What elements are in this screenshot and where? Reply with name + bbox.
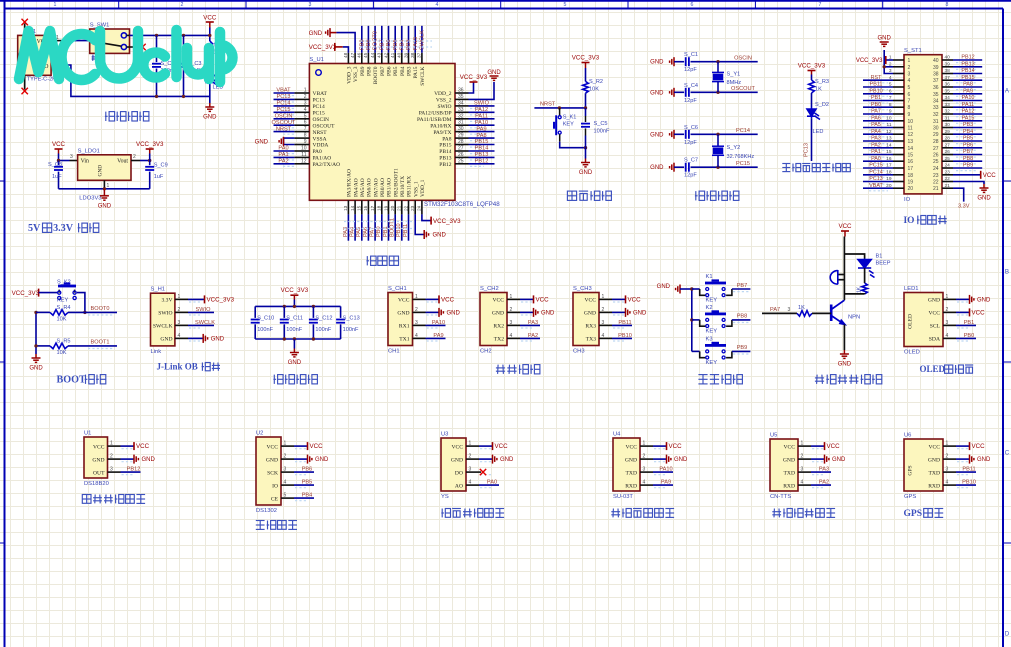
svg-text:S_LDO1: S_LDO1 (78, 148, 100, 154)
junction (584, 146, 587, 149)
svg-text:S_C7: S_C7 (684, 158, 698, 164)
power VCC_3V3 jlink (188, 298, 205, 300)
svg-text:5: 5 (564, 2, 567, 8)
svg-text:28: 28 (945, 136, 951, 142)
svg-text:GND: GND (315, 457, 329, 463)
svg-text:TXD: TXD (929, 470, 941, 476)
svg-text:CE: CE (271, 496, 279, 502)
svg-text:PB1: PB1 (871, 95, 881, 101)
svg-text:26: 26 (945, 149, 951, 155)
ground (479, 458, 493, 460)
svg-text:U5: U5 (770, 433, 777, 439)
svg-text:PC14: PC14 (736, 128, 750, 134)
svg-text:VCC: VCC (310, 443, 324, 450)
junction (103, 187, 106, 190)
svg-text:PB12: PB12 (961, 55, 974, 61)
power VCC (121, 445, 135, 447)
svg-text:SCL: SCL (930, 324, 941, 330)
header S_ST1 IO expansion (904, 55, 942, 194)
ground (956, 298, 970, 300)
svg-text:37: 37 (933, 78, 939, 84)
capacitor S_C10 100nF (254, 306, 256, 318)
svg-text:PA2: PA2 (528, 333, 538, 339)
wire S_C1 to net (691, 61, 758, 63)
svg-text:VCC_3V3: VCC_3V3 (572, 55, 600, 62)
svg-text:PA12/USB/DP: PA12/USB/DP (419, 111, 452, 117)
svg-text:PA11: PA11 (962, 102, 974, 108)
wire emitter to gnd (843, 324, 845, 350)
svg-text:VCC_3V3: VCC_3V3 (12, 290, 40, 297)
svg-text:SWCLK: SWCLK (420, 66, 426, 85)
svg-text:GND: GND (977, 297, 991, 303)
svg-text:VCC_3V3: VCC_3V3 (460, 74, 488, 81)
svg-text:5V: 5V (28, 223, 41, 234)
wire header pin22 to GND (953, 182, 984, 185)
wire R2 to node (585, 93, 587, 108)
LED alarm (858, 259, 875, 278)
ground (290, 349, 299, 357)
junction (34, 311, 37, 314)
svg-text:10K: 10K (589, 87, 599, 93)
svg-text:8: 8 (908, 105, 911, 111)
resistor 1K alarm (864, 268, 866, 283)
power VCC (533, 295, 535, 303)
wire dash marks (344, 41, 432, 229)
svg-text:PB14: PB14 (439, 149, 451, 155)
svg-text:GND: GND (579, 170, 593, 176)
mcu top pin wires (348, 26, 422, 64)
svg-text:PA15: PA15 (962, 116, 975, 122)
title filter circuit (273, 375, 283, 384)
wire T1 top pin (24, 24, 26, 36)
svg-text:BOOT0: BOOT0 (373, 66, 379, 84)
header S_H1 J-Link (151, 293, 175, 346)
ground (424, 230, 428, 239)
svg-text:DS18B20: DS18B20 (84, 481, 109, 487)
svg-text:S_C6: S_C6 (684, 125, 698, 131)
junction (883, 65, 886, 68)
wire T1 GND down to bus (51, 64, 60, 66)
svg-text:PA7: PA7 (871, 109, 881, 115)
junction (716, 166, 719, 169)
svg-text:36: 36 (945, 82, 951, 88)
svg-text:PB0: PB0 (964, 333, 975, 339)
svg-text:D: D (1005, 631, 1010, 638)
svg-text:PB7: PB7 (380, 66, 386, 76)
svg-text:BOOT1: BOOT1 (91, 340, 110, 346)
svg-text:S_CH1: S_CH1 (388, 286, 407, 292)
ground (426, 311, 440, 313)
no-connect X (22, 88, 28, 94)
wire boot left bus (35, 312, 37, 354)
LED S_D2 (807, 107, 820, 120)
svg-text:OLED: OLED (904, 350, 920, 356)
svg-text:S_R4: S_R4 (57, 305, 71, 311)
svg-text:PB9: PB9 (360, 66, 366, 76)
svg-text:S_Y1: S_Y1 (727, 72, 741, 78)
svg-text:KEY: KEY (706, 360, 718, 366)
ground (667, 455, 671, 464)
wire pin (426, 337, 446, 339)
svg-text:GPS: GPS (908, 465, 914, 475)
svg-text:SU-03T: SU-03T (613, 494, 633, 500)
wire filter top rail (255, 305, 340, 307)
ground (670, 163, 674, 172)
svg-text:VCC: VCC (536, 296, 550, 303)
ground (134, 455, 138, 464)
svg-text:100nF: 100nF (286, 327, 302, 333)
svg-text:13: 13 (908, 139, 914, 145)
capacitor S_C7 12pF (686, 163, 689, 172)
svg-text:S_C13: S_C13 (343, 316, 360, 322)
power VCC (811, 445, 825, 447)
svg-text:PB12: PB12 (475, 159, 489, 165)
wire VDD_3 to VCC_3V3 (343, 47, 349, 53)
svg-text:GND: GND (625, 457, 637, 463)
svg-text:PA11/USB/DM: PA11/USB/DM (417, 117, 452, 123)
svg-text:39: 39 (933, 65, 939, 71)
svg-text:6: 6 (691, 2, 694, 8)
ground (653, 458, 667, 460)
svg-text:PA9/TX: PA9/TX (433, 130, 451, 136)
svg-text:5: 5 (908, 85, 911, 91)
junction (182, 34, 185, 37)
wire NRST node (534, 107, 585, 109)
svg-text:S_H1: S_H1 (151, 287, 166, 293)
svg-text:VCC: VCC (52, 141, 66, 148)
power (146, 148, 154, 150)
junction (155, 34, 158, 37)
title main chip (366, 256, 376, 265)
svg-text:RXD: RXD (783, 483, 795, 489)
title voice broadcast module (772, 509, 781, 518)
wire filter to gnd (293, 339, 295, 349)
svg-text:KEY: KEY (563, 122, 574, 128)
svg-text:GND: GND (541, 310, 555, 316)
svg-text:VSSA: VSSA (313, 136, 327, 142)
svg-text:PA11: PA11 (475, 114, 488, 120)
wire T1 bottom pin (24, 75, 26, 89)
svg-text:PC13: PC13 (804, 143, 810, 157)
svg-text:25: 25 (933, 159, 939, 165)
ground (612, 311, 626, 313)
svg-text:PB10: PB10 (962, 480, 976, 486)
svg-text:2: 2 (181, 2, 184, 8)
svg-text:VCC_3V3: VCC_3V3 (856, 58, 883, 64)
title run indicator (782, 164, 790, 172)
svg-text:VCC: VCC (625, 444, 637, 450)
svg-text:12pF: 12pF (684, 98, 697, 104)
title reset circuit (567, 191, 576, 200)
pushbutton K1 KEY (692, 288, 700, 290)
gps module U6 (904, 439, 943, 491)
svg-text:S_CH2: S_CH2 (480, 286, 499, 292)
svg-text:LED1: LED1 (904, 286, 919, 292)
wire C5 to GND (585, 148, 587, 159)
svg-text:GND: GND (650, 132, 664, 138)
power (582, 62, 590, 64)
ground (100, 189, 109, 200)
svg-text:IO: IO (272, 483, 278, 489)
svg-text:PA2: PA2 (819, 480, 829, 486)
svg-text:PB10/TX: PB10/TX (400, 176, 406, 197)
svg-text:31: 31 (945, 116, 951, 122)
junction (584, 106, 587, 109)
svg-text:VCC: VCC (203, 15, 217, 22)
title crystal circuit (695, 191, 705, 200)
svg-text:S_R2: S_R2 (589, 79, 603, 85)
svg-text:DS1302: DS1302 (256, 508, 277, 514)
junction (148, 159, 151, 162)
junction (312, 305, 315, 308)
power VCC (666, 442, 668, 450)
title serial circuit (496, 365, 505, 374)
wire pin (612, 337, 632, 339)
svg-text:3.3V: 3.3V (161, 298, 172, 304)
serial header S_CH3 (573, 293, 599, 346)
svg-text:PC14: PC14 (313, 104, 325, 110)
svg-text:KEY: KEY (57, 298, 68, 304)
svg-text:PB0/AO: PB0/AO (380, 178, 386, 197)
ground (956, 458, 970, 460)
svg-text:B: B (1005, 269, 1009, 276)
wire pin (294, 471, 314, 473)
svg-text:GND: GND (266, 457, 278, 463)
wire pin (294, 484, 314, 486)
svg-text:PC14: PC14 (869, 169, 883, 175)
svg-text:GND: GND (674, 457, 688, 463)
power VCC (294, 445, 308, 447)
svg-text:OUT: OUT (93, 470, 105, 476)
svg-text:7: 7 (819, 2, 822, 8)
svg-text:PC13: PC13 (277, 94, 291, 100)
svg-text:24: 24 (945, 163, 951, 169)
svg-text:22: 22 (945, 176, 951, 182)
svg-text:PA6/AO: PA6/AO (367, 178, 373, 197)
svg-text:PB11: PB11 (403, 224, 409, 237)
svg-text:PB9: PB9 (737, 345, 748, 351)
wire S_C7 to net (691, 166, 758, 168)
svg-text:PA10/RX: PA10/RX (430, 123, 451, 129)
svg-text:PB5: PB5 (393, 66, 399, 76)
power VCC (426, 298, 440, 300)
connector T1 TYPE-C-2P (18, 35, 51, 75)
svg-text:K3: K3 (706, 336, 713, 342)
svg-text:PB11: PB11 (962, 467, 975, 473)
svg-text:PA9: PA9 (476, 126, 486, 132)
svg-text:NPN: NPN (848, 315, 860, 321)
svg-text:BOOT0: BOOT0 (91, 306, 110, 312)
svg-text:S_U1: S_U1 (309, 57, 324, 63)
junction (57, 159, 60, 162)
wire LED branch (844, 254, 864, 259)
svg-text:PC14: PC14 (277, 101, 291, 107)
svg-text:PB2/BOOT1: PB2/BOOT1 (393, 168, 399, 197)
svg-text:PA4: PA4 (871, 129, 881, 135)
svg-text:PA1: PA1 (871, 149, 881, 155)
svg-text:100nF: 100nF (594, 129, 610, 135)
svg-text:PA4/AO: PA4/AO (353, 178, 359, 197)
voice recognition U4 (613, 438, 640, 491)
title alarm circuit (815, 375, 824, 384)
title voice recognition module (611, 509, 620, 518)
svg-text:PB11/RX: PB11/RX (407, 176, 413, 197)
wire VSS_1 to GND (415, 214, 424, 234)
svg-text:39: 39 (945, 62, 951, 68)
capacitor S_C2 100nF (156, 35, 158, 62)
wire pin (956, 324, 976, 326)
ground (520, 311, 534, 313)
svg-text:VSS_2: VSS_2 (436, 98, 452, 104)
svg-text:GND: GND (633, 310, 647, 316)
svg-text:22: 22 (933, 180, 939, 186)
svg-text:LED: LED (813, 129, 824, 135)
svg-text:11: 11 (908, 126, 913, 132)
svg-text:BOOT1: BOOT1 (390, 218, 396, 237)
svg-text:12: 12 (908, 132, 914, 138)
svg-text:PB1: PB1 (964, 320, 975, 326)
junction (690, 318, 693, 321)
svg-text:VBAT: VBAT (869, 183, 883, 189)
svg-text:100nF: 100nF (257, 327, 273, 333)
svg-text:SWIO: SWIO (474, 101, 490, 107)
svg-text:PA7: PA7 (770, 307, 780, 313)
svg-text:PB4: PB4 (302, 493, 313, 499)
svg-text:S_Y2: S_Y2 (727, 145, 741, 151)
svg-text:Vout: Vout (117, 158, 128, 164)
power (334, 43, 336, 51)
crystal S_Y1 8MHz (717, 62, 719, 73)
capacitor S_C3 10uF (183, 35, 185, 62)
svg-text:GPS: GPS (904, 508, 923, 519)
svg-text:PA0: PA0 (871, 156, 881, 162)
junction (716, 133, 719, 136)
wire LED to GND (209, 85, 211, 104)
ground (121, 458, 135, 460)
svg-text:PB8: PB8 (963, 156, 973, 162)
svg-text:15: 15 (908, 153, 914, 159)
svg-text:1: 1 (908, 58, 911, 64)
svg-text:PB7: PB7 (963, 149, 973, 155)
svg-text:PB6: PB6 (302, 467, 313, 473)
svg-text:U1: U1 (84, 431, 91, 437)
capacitor S_C11 100nF (283, 306, 285, 318)
power VCC (980, 171, 982, 179)
svg-text:SWIO: SWIO (158, 311, 172, 317)
svg-text:OSCIN: OSCIN (734, 56, 752, 62)
svg-text:S_ST1: S_ST1 (904, 48, 922, 54)
svg-text:S_C10: S_C10 (257, 316, 274, 322)
svg-text:YS: YS (441, 494, 449, 500)
wire K1 bottom (559, 134, 561, 142)
MCUclub watermark (19, 30, 233, 82)
svg-text:S_CH3: S_CH3 (573, 286, 592, 292)
wire pin (479, 484, 499, 486)
serial header S_CH1 (388, 293, 413, 346)
svg-text:IO: IO (904, 197, 911, 203)
capacitor S_C13 100nF (340, 306, 342, 318)
svg-text:VDD_1: VDD_1 (420, 179, 426, 197)
svg-text:GND: GND (98, 165, 104, 177)
svg-text:PB10: PB10 (618, 333, 632, 339)
svg-text:12pF: 12pF (684, 173, 697, 179)
svg-text:NRST: NRST (540, 102, 556, 108)
wire T1 VCC to switch (51, 40, 64, 42)
svg-text:Vin: Vin (81, 158, 89, 164)
junction (716, 91, 719, 94)
svg-text:19: 19 (908, 180, 914, 186)
svg-text:14: 14 (908, 146, 914, 152)
ground (490, 76, 499, 80)
svg-text:OLED: OLED (920, 364, 946, 374)
svg-text:PA3: PA3 (871, 136, 881, 142)
svg-text:1K: 1K (798, 305, 805, 311)
resistor S_R4 10K (36, 311, 50, 313)
svg-text:RX2: RX2 (493, 324, 504, 330)
svg-text:IO: IO (904, 216, 915, 226)
mcu U1 STM32F103C8T6 (309, 64, 455, 201)
temperature sensor U1 (84, 437, 108, 478)
ground (811, 458, 825, 460)
power VCC (492, 442, 494, 450)
pushbutton K3 KEY (692, 350, 700, 352)
transistor Q1 NPN (831, 300, 845, 324)
svg-text:VCC: VCC (451, 444, 463, 450)
ground (581, 159, 590, 167)
svg-text:STM32F103C8T6_LQFP48: STM32F103C8T6_LQFP48 (424, 201, 500, 208)
wire R1 to LED (209, 58, 211, 73)
svg-text:PC15: PC15 (736, 161, 750, 167)
ground (205, 103, 214, 111)
svg-text:CH2: CH2 (480, 349, 492, 355)
power VCC (307, 442, 309, 450)
junction (34, 344, 37, 347)
svg-text:PB11: PB11 (870, 82, 883, 88)
svg-text:GND: GND (783, 457, 795, 463)
svg-text:30: 30 (945, 122, 951, 128)
ground (439, 308, 443, 317)
svg-text:34: 34 (933, 99, 939, 105)
wire key gnd bus (691, 289, 693, 351)
svg-text:C: C (1005, 450, 1010, 457)
svg-text:GND: GND (92, 457, 104, 463)
display header LED1 (904, 293, 943, 347)
svg-text:S_C5: S_C5 (594, 121, 608, 127)
ground (279, 137, 283, 146)
wire VDD_2 to VCC_3V3 (469, 82, 474, 93)
title temperature module (82, 495, 91, 504)
svg-text:PC15: PC15 (277, 107, 291, 113)
junction (208, 34, 211, 37)
svg-text:PA0: PA0 (278, 146, 288, 152)
mcu right pin wires (455, 93, 495, 166)
svg-text:S_C8: S_C8 (48, 162, 62, 168)
svg-text:12pF: 12pF (684, 140, 697, 146)
svg-text:PB0: PB0 (871, 102, 881, 108)
svg-text:TX1: TX1 (399, 337, 409, 343)
svg-text:PC13: PC13 (869, 176, 883, 182)
power (206, 21, 214, 23)
svg-text:3: 3 (908, 72, 911, 78)
power VCC (520, 298, 534, 300)
svg-text:GND: GND (309, 31, 323, 37)
svg-text:GND: GND (288, 360, 302, 366)
svg-text:VCC_3V3: VCC_3V3 (281, 287, 309, 294)
wire pin (653, 471, 673, 473)
wire base PA7 (762, 312, 797, 314)
svg-text:PB4: PB4 (963, 129, 973, 135)
wire LDO pin1 to bus (103, 180, 105, 189)
